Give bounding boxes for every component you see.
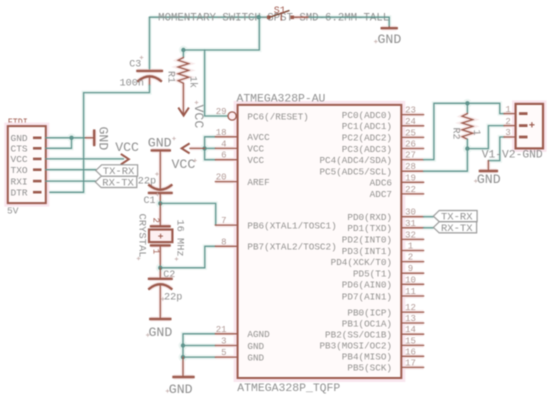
svg-text:GND: GND (11, 133, 28, 144)
svg-text:7: 7 (221, 216, 226, 226)
svg-text:3: 3 (505, 128, 510, 138)
svg-text:GND: GND (169, 382, 193, 396)
svg-text:R1: R1 (165, 71, 176, 83)
wire: crystal bottom to C2 node (159, 246, 161, 267)
switch S1 (267, 10, 294, 20)
IC U1 left pin 29 PC6(/RESET) lead (228, 112, 238, 120)
IC U1 right pin 24 PC1(ADC1) lead (401, 125, 423, 127)
svg-text:1: 1 (408, 242, 413, 252)
svg-text:2: 2 (505, 117, 510, 127)
svg-text:PB5(SCK): PB5(SCK) (347, 363, 392, 374)
net flag RX-TX (left) (95, 176, 137, 189)
junction GND pin 3 row (181, 343, 185, 347)
IC U1 left pin 8 PB7(XTAL2/TOSC2) lead (215, 245, 237, 247)
IC U1 right pin 26 PC3(ADC3) lead (401, 148, 423, 150)
wire: reset rail y=50 (183, 17, 259, 50)
connector J1 pin pad CTS (33, 147, 42, 150)
svg-text:20: 20 (216, 173, 227, 183)
crystal Y1 (149, 226, 172, 245)
svg-text:RX-TX: RX-TX (441, 223, 473, 235)
svg-text:PD4(XCK/T0): PD4(XCK/T0) (331, 257, 392, 268)
svg-text:PC6(/RESET): PC6(/RESET) (247, 111, 308, 122)
resistor R1 (178, 50, 189, 83)
IC U1 right pin 2 PD4(XCK/T0) lead (401, 261, 423, 263)
svg-text:C3: C3 (129, 60, 141, 71)
IC U1 right pin 1 PD3(INT1) lead (401, 250, 423, 252)
IC U1 left pin 20 AREF lead (215, 181, 237, 183)
connector J1 pin pad TXO (33, 168, 42, 171)
svg-text:RXI: RXI (11, 176, 28, 187)
svg-text:22p: 22p (164, 293, 182, 304)
svg-text:27: 27 (405, 151, 416, 161)
IC U1 right pin 27 PC4(ADC4/SDA) lead (401, 159, 423, 161)
connector J1 pin pad RXI (33, 180, 42, 183)
svg-text:AGND: AGND (247, 329, 270, 340)
svg-text:GND: GND (149, 325, 173, 340)
IC U1 right pin 31 PD1(TXD) lead (401, 227, 423, 229)
svg-text:PC4(ADC4/SDA): PC4(ADC4/SDA) (319, 155, 392, 166)
junction at pin 4 row (202, 146, 206, 150)
svg-text:VCC: VCC (11, 154, 28, 165)
IC U1 right pin 10 PD6(AIN0) lead (401, 283, 423, 285)
ground symbol bottom middle (174, 376, 194, 378)
net flag TX-RX (left) (96, 165, 138, 178)
svg-text:PD3(INT1): PD3(INT1) (342, 246, 392, 257)
ground symbol top right (382, 27, 397, 28)
svg-text:PD5(T1): PD5(T1) (353, 269, 392, 280)
svg-text:GND: GND (96, 127, 111, 151)
IC U1 right pin 17 PB5(SCK) lead (401, 366, 423, 368)
svg-text:ADC6: ADC6 (370, 178, 392, 189)
svg-text:PB6(XTAL1/TOSC1): PB6(XTAL1/TOSC1) (247, 220, 336, 231)
IC U1 right pin 13 PB1(OC1A) lead (401, 322, 423, 324)
IC U1 right pin 19 ADC6 lead (401, 181, 423, 183)
IC U1 right pin 32 PD2(INT0) lead (401, 238, 423, 240)
junction GND/CTS (69, 136, 73, 140)
wire: FTDI CTS pin to GND net (46, 138, 72, 149)
IC U1 left pin 6 VCC lead (215, 159, 237, 161)
supply VCC arrow right of FTDI (121, 154, 129, 165)
svg-text:18: 18 (216, 128, 227, 138)
svg-text:31: 31 (405, 219, 416, 229)
IC U1 left pin 3 GND lead (215, 345, 237, 347)
svg-text:10: 10 (405, 275, 416, 285)
wire: FTDI VCC pin to supply arrow (46, 158, 124, 160)
svg-text:1: 1 (505, 105, 510, 115)
svg-text:PB1(OC1A): PB1(OC1A) (342, 318, 392, 329)
svg-text:GND: GND (477, 172, 501, 187)
IC U1 right pin 9 PD5(T1) lead (401, 272, 423, 274)
svg-text:11: 11 (405, 287, 416, 297)
svg-text:PC2(ADC2): PC2(ADC2) (342, 133, 392, 144)
svg-text:V1-V2-GND: V1-V2-GND (482, 150, 543, 162)
ground symbol right of FTDI (rotated) (86, 131, 95, 145)
junction on top rail (257, 15, 261, 19)
svg-text:6: 6 (221, 151, 226, 161)
wire: reset net down to pin 29 bubble (205, 50, 228, 116)
IC U1 right pin 12 PB0(ICP) lead (401, 311, 423, 313)
svg-text:CRYSTAL: CRYSTAL (136, 214, 148, 258)
svg-text:1k: 1k (187, 76, 199, 88)
svg-text:ATMEGA328P_TQFP: ATMEGA328P_TQFP (237, 383, 340, 395)
svg-text:5V: 5V (7, 206, 19, 217)
svg-text:VCC: VCC (191, 105, 206, 129)
wire: C1 node to IC pin 7 (XTAL1) (160, 203, 215, 225)
svg-text:29: 29 (216, 107, 227, 117)
svg-text:26: 26 (405, 140, 416, 150)
net flag RX-TX (right) (433, 222, 476, 235)
svg-text:ATMEGA328P-AU: ATMEGA328P-AU (237, 94, 326, 106)
svg-text:PC3(ADC3): PC3(ADC3) (342, 144, 392, 155)
svg-text:13: 13 (405, 314, 416, 324)
svg-text:RX-TX: RX-TX (102, 178, 134, 190)
ground symbol below C2 (150, 318, 170, 320)
capacitor C2 (149, 268, 172, 289)
svg-text:5: 5 (221, 348, 226, 358)
svg-text:VCC: VCC (172, 157, 196, 172)
connector J2 pin 1 lead (504, 113, 528, 115)
svg-text:PB2(SS/OC1B): PB2(SS/OC1B) (325, 330, 392, 341)
junction below C1 (158, 201, 162, 205)
wire: IC pin 30 stub to TX-RX flag (424, 216, 434, 218)
wire: IC pin 27 to R2 top / connector pin 1 (424, 103, 504, 159)
svg-text:25: 25 (405, 128, 416, 138)
wire: connector pin 2 to R2 bottom (467, 126, 504, 149)
supply VCC arrow at pin 4 (pointing left) (182, 143, 205, 153)
svg-text:C1: C1 (144, 196, 156, 207)
svg-text:22: 22 (405, 185, 416, 195)
svg-text:CTS: CTS (11, 144, 28, 155)
junction at R1 top (181, 48, 185, 52)
IC U1 right pin 28 PC5(ADC5/SCL) lead (401, 170, 423, 172)
connector J1 FTDI body (8, 126, 46, 203)
wire: IC pin 28 to R2 bottom / connector pin 2 (424, 149, 468, 172)
svg-text:1: 1 (151, 249, 161, 254)
capacitor C3 (137, 71, 162, 85)
svg-text:21: 21 (216, 325, 227, 335)
svg-text:GND: GND (378, 32, 402, 47)
IC U1 left pin 21 AGND lead (215, 333, 237, 335)
wire: C3 bottom to FTDI DTR pin (46, 85, 150, 192)
IC U1 right pin 14 PB2(SS/OC1B) lead (401, 333, 423, 335)
svg-text:PD2(INT0): PD2(INT0) (342, 235, 392, 246)
svg-text:S1: S1 (274, 6, 286, 17)
wire: C1 node down to crystal (159, 203, 161, 225)
svg-text:PD6(AIN0): PD6(AIN0) (342, 280, 392, 291)
svg-text:PD0(RXD): PD0(RXD) (347, 212, 392, 223)
ground symbol above C1 (bar) (152, 149, 170, 151)
wire: AVCC/VCC vertical tie (pins 18,4,6) (205, 137, 216, 160)
svg-text:PD7(AIN1): PD7(AIN1) (342, 291, 392, 302)
wire: GND tie down to ground symbol (182, 357, 184, 376)
IC U1 right pin 11 PD7(AIN1) lead (401, 295, 423, 297)
svg-text:19: 19 (405, 173, 416, 183)
svg-text:14: 14 (405, 325, 416, 335)
svg-text:R2: R2 (450, 128, 461, 140)
wire: FTDI RXI to RX-TX flag (46, 180, 96, 182)
svg-text:GND: GND (247, 352, 264, 363)
svg-text:PC0(ADC0): PC0(ADC0) (342, 110, 392, 121)
svg-text:PC5(ADC5/SCL): PC5(ADC5/SCL) (319, 167, 392, 178)
wire: FTDI GND pin to ground (46, 137, 86, 139)
svg-text:PB0(ICP): PB0(ICP) (347, 307, 392, 318)
connector J2 pin 2 lead (504, 125, 528, 127)
svg-text:3: 3 (221, 337, 226, 347)
resistor R2 (462, 103, 473, 148)
svg-text:GND: GND (247, 341, 264, 352)
wire: FTDI TXO to TX-RX flag (46, 169, 97, 171)
svg-text:16: 16 (405, 347, 416, 357)
svg-text:PD1(TXD): PD1(TXD) (347, 223, 392, 234)
junction below crystal (158, 266, 162, 270)
svg-text:DTR: DTR (11, 188, 28, 199)
IC U1 right pin 30 PD0(RXD) lead (401, 216, 423, 218)
svg-text:ADC7: ADC7 (370, 189, 392, 200)
origin cross marks (part origins) (137, 40, 478, 393)
capacitor C1 (149, 185, 172, 202)
IC U1 left pin 4 VCC lead (215, 147, 237, 149)
wire: top rail down to C3 (149, 17, 151, 69)
connector J2 body (516, 104, 543, 148)
svg-text:23: 23 (405, 106, 416, 116)
svg-text:24: 24 (405, 117, 416, 127)
svg-text:PB4(MISO): PB4(MISO) (342, 352, 392, 363)
svg-text:15: 15 (405, 336, 416, 346)
wire: crystal node to IC pin 8 (XTAL2) (160, 246, 215, 267)
svg-text:17: 17 (405, 358, 416, 368)
svg-text:12: 12 (405, 303, 416, 313)
connector J1 pin pad GND (33, 137, 42, 140)
svg-text:1: 1 (470, 130, 481, 136)
IC U1 left pin 18 AVCC lead (215, 136, 237, 138)
svg-text:100n: 100n (120, 79, 144, 90)
IC U1 left pin 5 GND lead (215, 356, 237, 358)
op-amp/IC U1 ATMEGA328P-AU body (238, 105, 402, 378)
svg-text:PC1(ADC1): PC1(ADC1) (342, 121, 392, 132)
wire: AGND/GND tie (pins 21,3,5) (183, 334, 215, 357)
svg-text:PB7(XTAL2/TOSC2): PB7(XTAL2/TOSC2) (247, 242, 336, 253)
svg-text:16 MHz: 16 MHz (174, 220, 186, 257)
IC U1 right pin 16 PB4(MISO) lead (401, 355, 423, 357)
svg-text:28: 28 (405, 162, 416, 172)
svg-text:9: 9 (408, 264, 413, 274)
wire: reset net top rail from C3 to switch S1 (150, 16, 267, 18)
IC U1 right pin 23 PC0(ADC0) lead (401, 114, 423, 116)
svg-text:30: 30 (405, 208, 416, 218)
wire: connector pin 3 to ground (488, 137, 504, 161)
svg-text:32: 32 (405, 230, 416, 240)
junction R2 bottom (465, 146, 469, 150)
svg-text:GND: GND (148, 136, 172, 151)
soft halo under-layer (JPEG glow) (46, 13, 516, 377)
wire: C2 to ground (159, 285, 161, 319)
wire: GND bar down to C1 (159, 151, 161, 188)
junction GND pin 5 row (181, 355, 185, 359)
net flag TX-RX (right) (433, 211, 477, 224)
svg-text:2: 2 (408, 253, 413, 263)
svg-text:AVCC: AVCC (247, 132, 270, 143)
wire: IC pin 31 stub to RX-TX flag (424, 227, 434, 229)
svg-text:TXO: TXO (11, 165, 28, 176)
ground symbol below connector (480, 161, 497, 171)
svg-text:AREF: AREF (247, 177, 269, 188)
svg-text:22p: 22p (138, 177, 156, 188)
connector J1 pin pad VCC (33, 158, 42, 161)
svg-text:2: 2 (151, 218, 161, 223)
svg-text:PB3(MOSI/OC2): PB3(MOSI/OC2) (319, 341, 392, 352)
svg-text:VCC: VCC (247, 144, 264, 155)
svg-text:VCC: VCC (115, 140, 139, 155)
IC U1 right pin 15 PB3(MOSI/OC2) lead (401, 344, 423, 346)
supply VCC arrow below R1 (178, 83, 189, 115)
IC U1 left pin 7 PB6(XTAL1/TOSC1) lead (215, 224, 237, 226)
svg-text:8: 8 (221, 237, 226, 247)
IC U1 right pin 25 PC2(ADC2) lead (401, 136, 423, 138)
connector J2 pin 3 lead (504, 136, 528, 138)
IC U1 right pin 22 ADC7 lead (401, 193, 423, 195)
junction R2 top (465, 101, 469, 105)
svg-text:VCC: VCC (247, 155, 264, 166)
connector J1 pin pad DTR (33, 191, 42, 194)
wire: switch S1 to ground, top right (294, 17, 389, 27)
svg-text:4: 4 (221, 139, 226, 149)
